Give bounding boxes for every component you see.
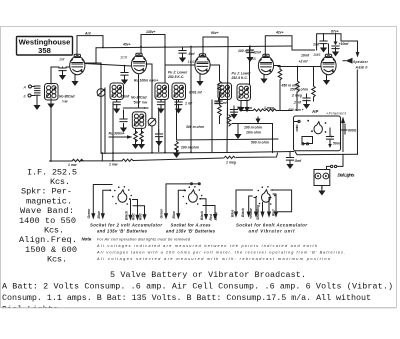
svg-text:1M5: 1M5: [313, 53, 321, 57]
cap ground under can2: [116, 100, 118, 102]
cap ground right: [158, 130, 160, 134]
resistor R4 to ground: [141, 128, 143, 133]
wire to V3 grid: [165, 64, 195, 66]
wire vertical node C (x=212): [211, 100, 213, 152]
svg-text:Red: Red: [139, 213, 143, 220]
svg-text:Wave Band:: Wave Band:: [20, 206, 74, 216]
svg-text:Black: Black: [124, 210, 128, 220]
osc cap ground: [123, 110, 125, 119]
grid feed V5: [278, 66, 321, 68]
osc coil can: [132, 112, 146, 128]
resistor col near 297: [297, 67, 299, 82]
filament feed arrow: [342, 122, 344, 152]
svg-text:1 meg: 1 meg: [264, 106, 275, 110]
svg-text:500 m ohm: 500 m ohm: [251, 141, 269, 145]
svg-text:87v+: 87v+: [331, 30, 339, 34]
grid cap left of V2: [124, 66, 126, 73]
IF can 1a: [155, 83, 169, 100]
tube V4: [258, 54, 273, 74]
svg-text:Kcs.: Kcs.: [50, 177, 70, 187]
svg-text:and Vibrator unit: and Vibrator unit: [249, 229, 296, 234]
tube V5: [321, 54, 336, 74]
IF can 1b: [172, 83, 186, 100]
wire long vertical from B3 right: [227, 46, 228, 152]
svg-text:Align.Freq.: Align.Freq.: [19, 235, 77, 245]
top right filter cluster: [317, 34, 341, 50]
svg-text:Socket for A.xces: Socket for A.xces: [171, 222, 212, 227]
svg-text:45v+: 45v+: [122, 43, 131, 47]
svg-text:No BfCad: No BfCad: [59, 95, 75, 99]
svg-text:200 m ohm: 200 m ohm: [180, 146, 199, 150]
svg-text:Red: Red: [272, 209, 276, 216]
svg-text:2 meg: 2 meg: [291, 94, 303, 98]
cap C ground at 250: [249, 46, 251, 50]
svg-text:Dial Lights: Dial Lights: [338, 173, 356, 178]
junction 100mmf: [249, 45, 251, 47]
osc section below V2: [138, 75, 140, 108]
grid wire V1 plate to V2: [85, 64, 132, 67]
left text column: [19, 168, 77, 265]
socket diagram S1: [87, 185, 162, 234]
svg-text:1 mw: 1 mw: [68, 163, 77, 167]
IF can 2a: [218, 83, 232, 100]
plate resistor right of V3: [210, 65, 220, 81]
svg-text:Ru 100m ohm+: Ru 100m ohm+: [134, 79, 158, 83]
svg-text:Ant: Ant: [84, 32, 92, 36]
svg-text:Blue: Blue: [97, 211, 101, 218]
svg-text:25mf: 25mf: [120, 95, 130, 99]
svg-text:430 mm +: 430 mm +: [287, 108, 304, 112]
svg-text:Socket for 6volt Accumulator: Socket for 6volt Accumulator: [236, 223, 307, 228]
capacitor C11 with ground: [233, 106, 235, 110]
svg-text:½w: ½w: [62, 100, 68, 104]
svg-text:252.5 K.C.: 252.5 K.C.: [167, 75, 184, 79]
svg-text:Speaker: Speaker: [353, 60, 369, 64]
svg-text:+Filament: +Filament: [326, 112, 347, 116]
antenna coil: [35, 86, 41, 95]
resistor R5 10m: [218, 105, 222, 116]
svg-text:42mf: 42mf: [252, 51, 262, 55]
svg-text:10m ohm: 10m ohm: [246, 131, 261, 135]
rails bottom: [102, 152, 293, 161]
svg-text:50m ohm: 50m ohm: [237, 106, 252, 110]
svg-text:Ru 300m+: Ru 300m+: [109, 132, 125, 136]
svg-text:Note: Note: [82, 237, 92, 242]
bottom text block: [2, 270, 393, 315]
resistor R6: [227, 108, 229, 115]
electrolytic cap arrow: [246, 100, 248, 107]
IF can 2b: [237, 84, 251, 101]
svg-text:Yellow: Yellow: [249, 208, 253, 219]
svg-text:42v+: 42v+: [275, 31, 284, 35]
svg-text:10mf: 10mf: [301, 54, 310, 58]
svg-text:1C6: 1C6: [120, 56, 128, 60]
resistor R3 to ground: [135, 128, 137, 133]
bracket B2 135v: [141, 35, 165, 54]
svg-text:Socket for 2 volt Accumulator: Socket for 2 volt Accumulator: [90, 222, 162, 227]
V1 ground: [74, 74, 76, 77]
svg-text:Blue: Blue: [172, 211, 176, 218]
bracket B1 Ant: [77, 36, 103, 56]
svg-text:1 mf: 1 mf: [185, 102, 193, 106]
svg-text:and 135v 'B' Batteries: and 135v 'B' Batteries: [166, 229, 216, 234]
second vertical: [104, 88, 106, 153]
svg-text:135v+: 135v+: [146, 30, 156, 34]
svg-text:Pu J: Lower: Pu J: Lower: [232, 72, 252, 76]
svg-text:1C6: 1C6: [188, 60, 196, 64]
tube V1: [70, 54, 85, 74]
svg-text:.1 mf: .1 mf: [293, 101, 302, 105]
arrow wire: [109, 136, 131, 138]
svg-text:1M: 1M: [59, 58, 65, 62]
arrow to AVC line: [257, 117, 259, 119]
coil can 2: [110, 83, 124, 100]
svg-text:AP: AP: [312, 109, 318, 114]
svg-text:1 mw: 1 mw: [109, 162, 118, 166]
wire B2 right down to IF can: [164, 47, 166, 83]
capacitor C10: [218, 98, 220, 101]
svg-text:10m: 10m: [214, 101, 221, 105]
svg-text:All voltages taken with a 200: All voltages taken with a 200 ohms per v…: [96, 250, 345, 254]
svg-text:Green: Green: [160, 209, 164, 219]
cap ground below rail left of box: [289, 152, 291, 158]
line y=139.5: [177, 100, 279, 141]
svg-text:100 m ohm: 100 m ohm: [244, 126, 262, 130]
right edge vertical: [357, 41, 359, 52]
svg-text:Kcs.: Kcs.: [44, 226, 64, 236]
long vertical at 191: [190, 47, 192, 153]
padder trimmer: [146, 64, 152, 153]
300 ohm resistor right: [341, 129, 348, 131]
horizontal resistor line: [240, 110, 252, 112]
grid cap left of V1: [62, 67, 64, 68]
svg-text:A: A: [23, 86, 27, 90]
svg-text:A&B h: A&B h: [355, 66, 368, 70]
svg-text:1500 & 600: 1500 & 600: [25, 245, 77, 255]
svg-text:Red: Red: [209, 213, 213, 220]
svg-text:1A6: 1A6: [249, 57, 257, 61]
socket diagram S2: [160, 183, 218, 234]
speaker arrow: [346, 58, 353, 64]
svg-text:1 meg: 1 meg: [226, 161, 237, 165]
svg-text:90v+: 90v+: [211, 31, 219, 35]
rail 45v: [96, 46, 292, 48]
coil can A: [45, 84, 59, 101]
svg-text:I.F. 252.5: I.F. 252.5: [27, 168, 77, 178]
svg-text:Shielding: Shielding: [256, 204, 260, 220]
svg-text:+2 mf: +2 mf: [299, 60, 309, 64]
svg-text:Consump. 1.1 amps. B Bat: 135: Consump. 1.1 amps. B Bat: 135 Volts. B B…: [2, 293, 371, 303]
svg-text:1mf: 1mf: [313, 43, 320, 47]
svg-text:Black: Black: [200, 210, 204, 220]
svg-text:Black: Black: [241, 207, 245, 217]
svg-text:300 m ohm: 300 m ohm: [186, 125, 204, 129]
svg-text:5 Valve Battery or Vibrator Br: 5 Valve Battery or Vibrator Broadcast.: [110, 270, 306, 280]
cap C ground at 183: [182, 47, 184, 51]
svg-text:A Batt: 2 Volts Consump. .6 am: A Batt: 2 Volts Consump. .6 amp. Air Cel…: [2, 282, 393, 292]
bracket B4 42v: [265, 36, 314, 57]
ground lead: [237, 124, 239, 133]
svg-text:.5mf: .5mf: [294, 159, 302, 163]
title box Westinghouse 358: [17, 37, 73, 56]
svg-text:magnetic.: magnetic.: [26, 196, 72, 206]
tube V2: [131, 53, 146, 73]
socket diagram S3: [231, 186, 308, 234]
svg-text:Pu J: Lower: Pu J: Lower: [168, 71, 188, 75]
svg-text:358: 358: [38, 46, 51, 55]
svg-text:Green: Green: [87, 209, 91, 219]
ground: [230, 110, 237, 119]
right socket wiring box: [294, 116, 341, 151]
wire V1 grid: [51, 67, 59, 84]
trimmer near V1: [100, 63, 102, 153]
svg-text:252.5 K.C.: 252.5 K.C.: [231, 76, 248, 80]
svg-text:Spkr: Per-: Spkr: Per-: [21, 187, 72, 197]
svg-text:50mf: 50mf: [333, 142, 342, 146]
notes block: [82, 237, 346, 261]
svg-text:800Ω: 800Ω: [348, 129, 357, 133]
svg-text:Kcs.: Kcs.: [47, 255, 67, 265]
svg-text:Snap: Snap: [214, 212, 218, 220]
wire AVC horizontal: [232, 124, 273, 153]
svg-text:and 135v 'B' Batteries: and 135v 'B' Batteries: [97, 229, 148, 234]
svg-text:Blue: Blue: [231, 210, 235, 217]
bracket B3: [203, 37, 228, 56]
resistor col near 313: [313, 67, 315, 87]
tube V3: [195, 54, 210, 74]
svg-text:'5mf' ½w: '5mf' ½w: [133, 101, 147, 105]
svg-text:For Air cell operation dial li: For Air cell operation dial lights must …: [97, 237, 191, 241]
dial lights: [337, 154, 343, 166]
svg-text:+10mf: +10mf: [339, 42, 350, 46]
svg-text:No BfCad: No BfCad: [131, 96, 147, 100]
svg-text:250 m ohm: 250 m ohm: [289, 88, 308, 92]
svg-text:Red: Red: [131, 213, 135, 220]
V4 plate resistor: [274, 66, 280, 70]
svg-text:1400 to 550: 1400 to 550: [19, 216, 76, 226]
